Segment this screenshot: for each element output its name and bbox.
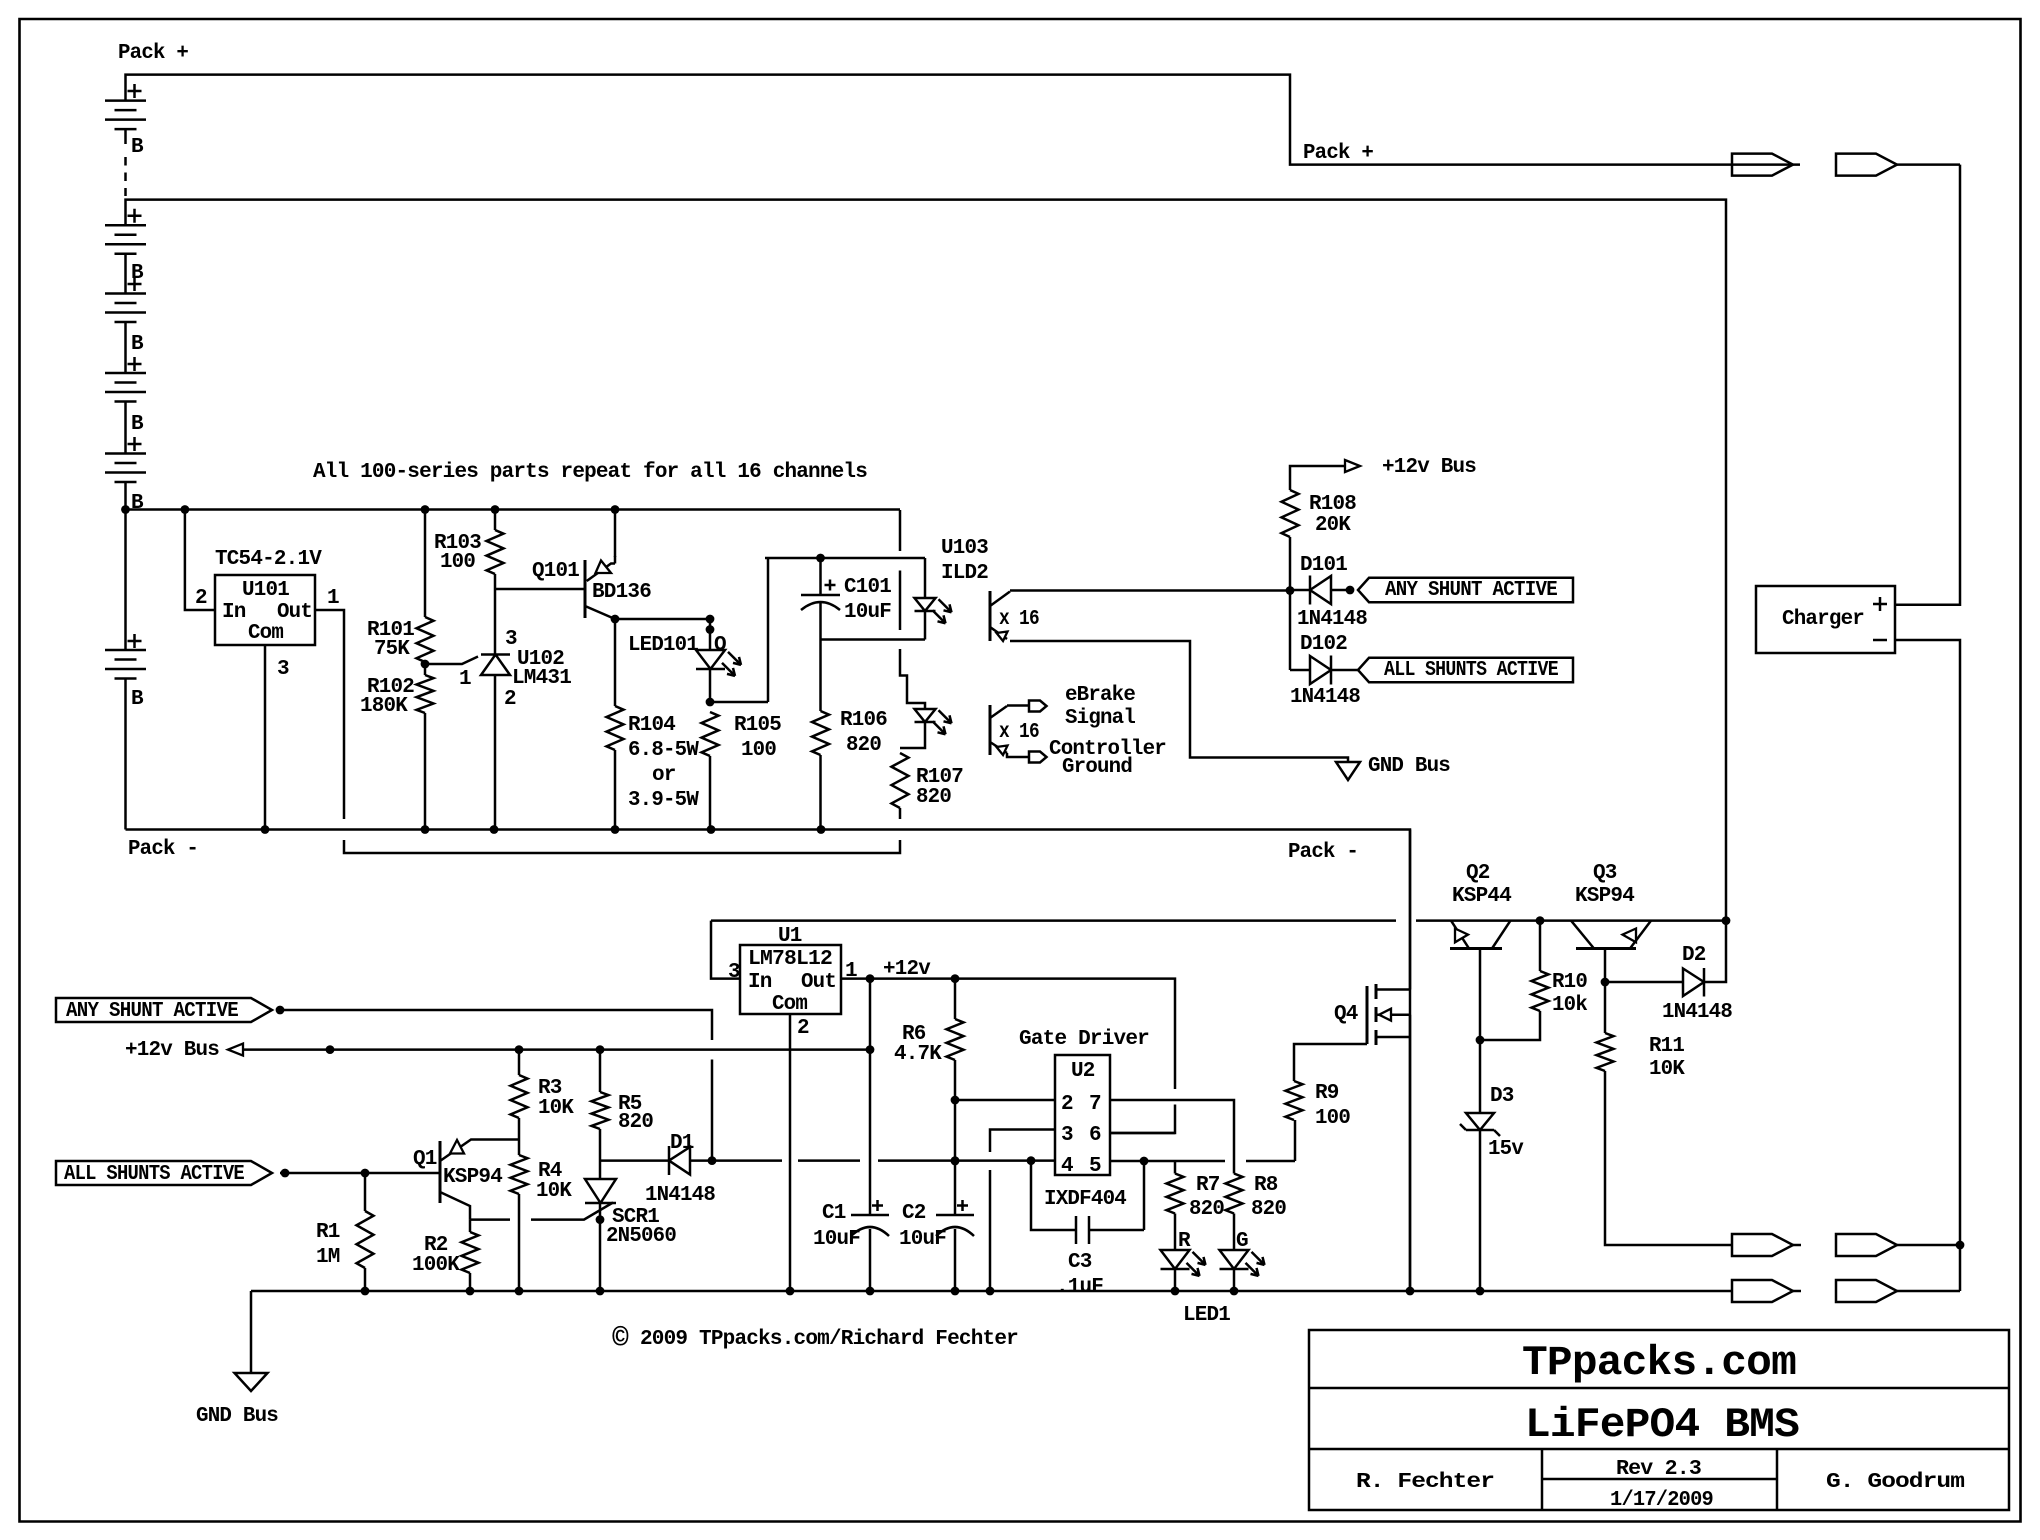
- battery B cell4: [105, 373, 146, 402]
- pin 2 label U102: [504, 688, 516, 711]
- label R7 value 820: [1189, 1198, 1224, 1221]
- capacitor C101: [801, 558, 840, 640]
- title Rev 2.3: [1616, 1458, 1701, 1481]
- label LED101 O: [714, 634, 726, 657]
- output arrow row2 right: [1836, 1280, 1960, 1302]
- wire Q4 source to output bus: [1409, 1015, 1412, 1291]
- label R10 value 10k: [1552, 994, 1587, 1017]
- node B label cell3: [131, 333, 144, 356]
- wire R11 to output row1: [1605, 1071, 1731, 1245]
- node B label cell4: [131, 413, 144, 436]
- transistor Q2 KSP44: [1450, 921, 1511, 949]
- svg-text:Gate Driver: Gate Driver: [1019, 1028, 1149, 1051]
- wire D101 node down to D102: [1289, 590, 1292, 670]
- wire R6 to shunt-detect node: [951, 1060, 960, 1215]
- pin 4 label U2: [1061, 1155, 1073, 1178]
- label R7: [1196, 1174, 1220, 1197]
- svg-text:1: 1: [327, 587, 339, 610]
- pin 5 label U2: [1089, 1155, 1101, 1178]
- wire R9 to Q4 gate: [1294, 1044, 1367, 1081]
- svg-text:C101: C101: [844, 576, 891, 599]
- svg-text:B: B: [131, 262, 144, 285]
- charger box: [1756, 586, 1895, 653]
- wire U2 pin3 to GND: [990, 1130, 1055, 1292]
- wire R1 to GND bus: [364, 1268, 367, 1291]
- label D2: [1682, 944, 1706, 967]
- svg-text:2: 2: [504, 688, 516, 711]
- battery B (top cell): [105, 101, 146, 130]
- wire U1 Com to GND bus: [789, 1014, 792, 1291]
- flag ALL SHUNTS ACTIVE right: [1358, 658, 1573, 683]
- wire junction to U102 ref: [425, 657, 478, 665]
- label x 16 PT1: [999, 608, 1039, 631]
- label IXDF404: [1044, 1188, 1126, 1211]
- label copyright: [612, 1324, 1018, 1355]
- label R104 value: [628, 739, 699, 762]
- charger plus terminal: [1873, 597, 1887, 611]
- wire R10 to Q2 base node: [1480, 1011, 1540, 1040]
- label TC54-2.1V: [215, 548, 322, 571]
- wire U103 LED A cathode: [924, 611, 927, 640]
- svg-text:x 16: x 16: [999, 608, 1039, 631]
- led LED1 green: [1220, 1250, 1265, 1276]
- label U1 In: [748, 971, 772, 994]
- svg-text:820: 820: [1251, 1198, 1286, 1221]
- svg-text:820: 820: [618, 1111, 653, 1134]
- svg-text:4: 4: [1061, 1155, 1073, 1178]
- wire R105 node to C101 top rail riser: [710, 558, 768, 702]
- wire LED green to GND bus: [1233, 1269, 1236, 1291]
- svg-text:100: 100: [741, 739, 776, 762]
- capacitor C3: [1031, 1161, 1144, 1244]
- output arrow Pack+ left: [1732, 154, 1793, 176]
- svg-text:Pack -: Pack -: [128, 838, 198, 861]
- svg-text:R108: R108: [1309, 493, 1356, 516]
- svg-text:IXDF404: IXDF404: [1044, 1188, 1126, 1211]
- wire Pack+ top bus from battery to right edge corner: [126, 75, 1732, 165]
- wire B bus to R101: [424, 510, 427, 618]
- battery B cell5: [105, 454, 146, 483]
- wire +12v to R3: [518, 1050, 521, 1075]
- svg-text:1N4148: 1N4148: [645, 1184, 715, 1207]
- svg-text:GND Bus: GND Bus: [1368, 755, 1450, 778]
- label R108: [1309, 493, 1356, 516]
- label GND Bus: [1368, 755, 1450, 778]
- label R4 value 10K: [536, 1180, 572, 1203]
- svg-text:75K: 75K: [374, 638, 410, 661]
- wire R10 node: [1539, 921, 1542, 971]
- wire second pack top bus: [126, 200, 1727, 921]
- label R102: [367, 676, 414, 699]
- pin 6 label U2: [1089, 1124, 1101, 1147]
- svg-text:D3: D3: [1490, 1085, 1514, 1108]
- capacitor C1: [851, 1200, 889, 1291]
- note repeat text: [313, 461, 867, 484]
- resistor R106: [812, 711, 829, 755]
- resistor R5: [592, 1092, 609, 1129]
- svg-text:U103: U103: [941, 537, 988, 560]
- wire R7 to LED red: [1174, 1214, 1177, 1251]
- resistor R1: [357, 1211, 374, 1268]
- wire C1 branch: [866, 979, 875, 1215]
- ground GND Bus symbol: [1336, 762, 1360, 780]
- node B label cell5: [131, 492, 144, 515]
- wire charger- rail down: [1895, 640, 1964, 1291]
- svg-text:eBrake: eBrake: [1065, 684, 1135, 707]
- label R5 value 820: [618, 1111, 653, 1134]
- IC U1 LM78L12 box: [740, 945, 841, 1014]
- label R104 or: [652, 764, 676, 787]
- wire cell2-cell3 link: [124, 254, 127, 294]
- svg-text:ANY SHUNT ACTIVE: ANY SHUNT ACTIVE: [66, 1000, 238, 1023]
- svg-text:ANY SHUNT ACTIVE: ANY SHUNT ACTIVE: [1385, 579, 1557, 602]
- wire node to R11: [1604, 982, 1607, 1033]
- wire R8 to LED green: [1233, 1214, 1236, 1251]
- svg-text:B: B: [131, 413, 144, 436]
- svg-text:R105: R105: [734, 714, 781, 737]
- wire channel top bus B: [121, 505, 900, 514]
- wire PT2 collector to eBrake arrow: [1007, 701, 1047, 712]
- label R9 value 100: [1315, 1107, 1350, 1130]
- label eBrake: [1065, 684, 1135, 707]
- pin 3 label U102: [505, 628, 517, 651]
- svg-text:Rev 2.3: Rev 2.3: [1616, 1458, 1701, 1481]
- wire Q3 base to D2/R11 node: [1601, 949, 1610, 986]
- label C1 value 10uF: [813, 1228, 860, 1251]
- resistor R7: [1167, 1174, 1184, 1214]
- svg-text:3: 3: [1061, 1124, 1073, 1147]
- svg-text:Out: Out: [277, 601, 312, 624]
- diode D1 1N4148: [600, 1146, 712, 1175]
- label R106 value 820: [846, 734, 881, 757]
- svg-text:R7: R7: [1196, 1174, 1220, 1197]
- svg-text:6.8-5W: 6.8-5W: [628, 739, 699, 762]
- label R2 value 100K: [412, 1254, 460, 1277]
- node B label monitored cell: [131, 688, 144, 711]
- svg-text:1N4148: 1N4148: [1290, 686, 1360, 709]
- charger minus terminal: [1873, 639, 1887, 642]
- label D101 1N4148: [1297, 608, 1367, 631]
- node Pack + label (right): [1303, 142, 1373, 165]
- transistor Q101 BD136: [585, 556, 615, 619]
- label R2: [424, 1234, 448, 1257]
- label C2 value 10uF: [899, 1228, 946, 1251]
- resistor R2: [462, 1232, 479, 1273]
- led LED1 red: [1161, 1250, 1206, 1276]
- resistor R104: [607, 706, 624, 750]
- output arrow row1 right: [1836, 1234, 1960, 1256]
- capacitor C2: [936, 1200, 974, 1291]
- resistor R107: [892, 753, 909, 808]
- svg-text:KSP94: KSP94: [443, 1166, 502, 1189]
- svg-text:2: 2: [195, 587, 207, 610]
- label U103: [941, 537, 988, 560]
- wire ANY SHUNT ACTIVE to D1 node: [276, 1006, 717, 1165]
- node Pack + label (top left): [118, 42, 188, 65]
- label R6: [902, 1023, 926, 1046]
- wire Q4 drain to Pack-: [1409, 830, 1412, 990]
- resistor R3: [511, 1075, 528, 1118]
- title date: [1610, 1489, 1713, 1512]
- resistor R6: [947, 1019, 964, 1060]
- battery B cell3: [105, 294, 146, 323]
- svg-text:820: 820: [1189, 1198, 1224, 1221]
- svg-text:10uF: 10uF: [899, 1228, 946, 1251]
- label U101 Com: [248, 622, 283, 645]
- wire R104 to Pack-: [614, 750, 617, 830]
- svg-text:820: 820: [916, 786, 951, 809]
- svg-text:LM431: LM431: [512, 667, 571, 690]
- svg-text:LM78L12: LM78L12: [748, 948, 832, 971]
- label +12v Bus: [1382, 456, 1476, 479]
- transistor Q3 KSP94: [1571, 921, 1651, 949]
- label ILD2: [941, 562, 988, 585]
- svg-text:Q1: Q1: [413, 1148, 437, 1171]
- svg-text:x 16: x 16: [999, 721, 1039, 744]
- svg-text:ALL SHUNTS ACTIVE: ALL SHUNTS ACTIVE: [1384, 659, 1558, 682]
- label D2 1N4148: [1662, 1001, 1732, 1024]
- wire +12v bus arrow from R108: [1290, 460, 1360, 490]
- label Controller: [1049, 738, 1166, 761]
- wire Q101 base wire: [495, 588, 585, 591]
- wire LED B cathode to R107: [900, 722, 925, 748]
- svg-text:R. Fechter: R. Fechter: [1356, 1471, 1494, 1494]
- label D1: [670, 1132, 694, 1155]
- wire PT1 collector to D101 node: [1010, 589, 1290, 592]
- svg-text:100K: 100K: [412, 1254, 460, 1277]
- wire +12v to R5: [599, 1050, 602, 1092]
- label GND Bus bottom: [196, 1405, 278, 1428]
- svg-text:R8: R8: [1254, 1174, 1278, 1197]
- pin 2 label U101: [195, 587, 207, 610]
- svg-text:.1uF: .1uF: [1056, 1276, 1103, 1299]
- resistor R102: [417, 675, 434, 713]
- svg-text:4.7K: 4.7K: [894, 1043, 942, 1066]
- svg-text:TPpacks.com: TPpacks.com: [1522, 1339, 1796, 1387]
- svg-text:C1: C1: [822, 1202, 846, 1225]
- wire collector to R2: [469, 1220, 472, 1232]
- svg-text:R11: R11: [1649, 1035, 1684, 1058]
- output arrow Pack+ right: [1836, 154, 1960, 176]
- svg-text:In: In: [748, 971, 772, 994]
- wire PT2 emitter to controller ground arrow: [1007, 752, 1047, 763]
- wire cell5 to channel bus: [124, 482, 127, 510]
- IC U101 TC54-2.1V box: [215, 575, 315, 645]
- wire B bus to Q101 emitter: [614, 510, 617, 558]
- svg-text:1N4148: 1N4148: [1297, 608, 1367, 631]
- label U101: [242, 579, 289, 602]
- wire channel feed from B bus: [900, 510, 925, 709]
- label C101: [844, 576, 891, 599]
- label R101 value 75K: [374, 638, 410, 661]
- label D1 1N4148: [645, 1184, 715, 1207]
- label Q2 KSP44: [1452, 885, 1511, 908]
- label G green: [1236, 1230, 1248, 1253]
- battery B cell3 plus mark: [128, 277, 142, 291]
- pin 1 label U1: [845, 960, 857, 983]
- wire +12v to R6: [954, 979, 957, 1019]
- pin 7 label U2: [1089, 1093, 1101, 1116]
- battery B cell4 plus mark: [128, 357, 142, 371]
- svg-text:TC54-2.1V: TC54-2.1V: [215, 548, 322, 571]
- wire B bus to R103: [494, 510, 497, 531]
- wire ALL SHUNTS ACTIVE to Q1 base: [280, 1169, 440, 1178]
- svg-text:B: B: [131, 136, 144, 159]
- resistor R9: [1286, 1081, 1303, 1120]
- svg-text:Ground: Ground: [1062, 756, 1132, 779]
- svg-text:Signal: Signal: [1065, 707, 1135, 730]
- svg-text:R: R: [1178, 1230, 1191, 1253]
- svg-text:U101: U101: [242, 579, 289, 602]
- svg-text:KSP44: KSP44: [1452, 885, 1511, 908]
- svg-text:3.9-5W: 3.9-5W: [628, 789, 699, 812]
- output arrow row1 left: [1732, 1234, 1801, 1256]
- wire U1 Out +12v rail: [841, 974, 1175, 1133]
- phototransistor U103 PT1: [990, 591, 1010, 641]
- svg-text:B: B: [131, 492, 144, 515]
- label U1 Com: [772, 993, 807, 1016]
- label R5: [618, 1093, 642, 1116]
- wire dashed battery continuation: [124, 157, 127, 196]
- wire U101 pin1 out down: [315, 610, 900, 853]
- battery B cell2 plus mark: [128, 209, 142, 223]
- wire Q2 base down: [1476, 949, 1485, 1044]
- label R108 value 20K: [1315, 514, 1351, 537]
- svg-text:G. Goodrum: G. Goodrum: [1826, 1471, 1964, 1494]
- svg-text:Out: Out: [801, 971, 836, 994]
- svg-text:1M: 1M: [316, 1246, 340, 1269]
- svg-text:10uF: 10uF: [813, 1228, 860, 1251]
- svg-text:Q3: Q3: [1593, 862, 1617, 885]
- label R101: [367, 619, 414, 642]
- resistor R4: [511, 1155, 528, 1194]
- label R104: [628, 714, 675, 737]
- label U102: [517, 648, 564, 671]
- resistor R11: [1597, 1033, 1614, 1071]
- label D102 1N4148: [1290, 686, 1360, 709]
- led U103 LED A (anode from C101 rail): [915, 558, 952, 623]
- wire U101 pin2 to B bus: [185, 510, 215, 611]
- flag ANY SHUNT ACTIVE right: [1358, 578, 1573, 603]
- wire R3-R4 emitter node: [518, 1118, 521, 1155]
- label R107 value 820: [916, 786, 951, 809]
- wire R103 to base junction and U102: [494, 574, 497, 654]
- shunt regulator U102 LM431: [481, 655, 510, 676]
- label Q1: [413, 1148, 437, 1171]
- label SCR1: [612, 1206, 659, 1229]
- label D3: [1490, 1085, 1514, 1108]
- label U101 Out: [277, 601, 312, 624]
- label U1: [778, 925, 802, 948]
- svg-text:6: 6: [1089, 1124, 1101, 1147]
- label R1: [316, 1221, 340, 1244]
- wire +12v bus left arrow: [228, 1044, 870, 1056]
- label R3: [538, 1077, 562, 1100]
- pin 3 label U1: [728, 961, 740, 984]
- label D101: [1300, 554, 1347, 577]
- resistor R8: [1226, 1174, 1243, 1214]
- svg-text:B: B: [131, 333, 144, 356]
- svg-text:LED101: LED101: [628, 634, 698, 657]
- label R105 value 100: [741, 739, 776, 762]
- svg-text:D101: D101: [1300, 554, 1347, 577]
- svg-text:15v: 15v: [1488, 1138, 1524, 1161]
- label C3: [1068, 1251, 1092, 1274]
- node B label (top cell): [131, 136, 144, 159]
- pin 2 label U2: [1061, 1093, 1073, 1116]
- svg-text:1/17/2009: 1/17/2009: [1610, 1489, 1713, 1512]
- svg-text:BD136: BD136: [592, 581, 651, 604]
- label R103: [434, 532, 481, 555]
- resistor R105: [702, 712, 719, 756]
- label Gate Driver: [1019, 1028, 1149, 1051]
- label R10: [1552, 971, 1587, 994]
- wire PT1 emitter to GND bus symbol: [1010, 641, 1348, 762]
- label R red: [1178, 1230, 1191, 1253]
- label R3 value 10K: [538, 1097, 574, 1120]
- svg-text:10uF: 10uF: [844, 601, 891, 624]
- svg-text:R104: R104: [628, 714, 675, 737]
- wire monitored cell to Pack-: [124, 679, 127, 830]
- output arrow row2 left: [1732, 1280, 1801, 1302]
- svg-text:10k: 10k: [1552, 994, 1587, 1017]
- svg-text:Q101: Q101: [532, 560, 579, 583]
- svg-text:10K: 10K: [536, 1180, 572, 1203]
- label R11 value 10K: [1649, 1058, 1685, 1081]
- wire collector to R104: [614, 619, 617, 706]
- wire U1 In from pack top rail: [711, 916, 1730, 978]
- node B label cell2: [131, 262, 144, 285]
- svg-text:LiFePO4 BMS: LiFePO4 BMS: [1525, 1401, 1799, 1449]
- wire R5 to SCR1 anode node: [599, 1129, 602, 1179]
- label U2: [1071, 1060, 1095, 1083]
- zener D3 15v: [1460, 1040, 1500, 1291]
- resistor R103: [487, 530, 504, 574]
- svg-text:LED1: LED1: [1183, 1304, 1230, 1327]
- wire U102 anode to Pack-: [494, 675, 497, 830]
- svg-text:3: 3: [728, 961, 740, 984]
- svg-text:R106: R106: [840, 709, 887, 732]
- svg-text:D102: D102: [1300, 633, 1347, 656]
- label U101 In: [222, 601, 246, 624]
- svg-text:ILD2: ILD2: [941, 562, 988, 585]
- svg-text:2009 TPpacks.com/Richard Fecht: 2009 TPpacks.com/Richard Fechter: [640, 1328, 1018, 1351]
- wire U2 pin5 output line: [1110, 1157, 1295, 1166]
- svg-text:+12v: +12v: [883, 958, 931, 981]
- svg-text:GND Bus: GND Bus: [196, 1405, 278, 1428]
- flag ANY SHUNT ACTIVE left: [56, 998, 272, 1023]
- svg-text:D1: D1: [670, 1132, 694, 1155]
- wire shunt-detect net to U2 pin4: [712, 1156, 1055, 1165]
- label D102: [1300, 633, 1347, 656]
- led U103 LED B (eBrake channel): [915, 709, 952, 734]
- svg-text:Q4: Q4: [1334, 1003, 1358, 1026]
- svg-text:Charger: Charger: [1782, 608, 1864, 631]
- node Pack - label right: [1288, 841, 1358, 864]
- svg-text:KSP94: KSP94: [1575, 885, 1634, 908]
- label Q1 KSP94: [443, 1166, 502, 1189]
- label R8: [1254, 1174, 1278, 1197]
- wire R101-R102 junction: [421, 660, 430, 675]
- label R1 value 1M: [316, 1246, 340, 1269]
- label C3 value .1uF: [1056, 1276, 1103, 1299]
- thyristor SCR1 2N5060: [585, 1179, 616, 1291]
- label C1: [822, 1202, 846, 1225]
- svg-text:Com: Com: [248, 622, 283, 645]
- mosfet Q4: [1367, 984, 1410, 1045]
- svg-text:B: B: [131, 688, 144, 711]
- label Q3: [1593, 862, 1617, 885]
